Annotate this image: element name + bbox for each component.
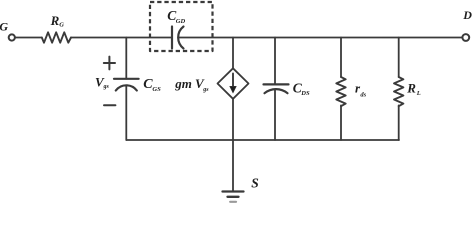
- svg-text:R: R: [50, 13, 60, 28]
- svg-text:G: G: [59, 22, 64, 29]
- svg-text:GD: GD: [176, 18, 186, 25]
- svg-text:DS: DS: [300, 90, 310, 97]
- svg-text:L: L: [416, 90, 421, 97]
- svg-text:gm V: gm V: [174, 76, 205, 91]
- svg-text:gs: gs: [202, 87, 209, 93]
- svg-text:GS: GS: [152, 86, 161, 93]
- svg-text:S: S: [251, 175, 259, 190]
- svg-text:D: D: [462, 8, 472, 22]
- svg-text:G: G: [0, 20, 8, 34]
- svg-text:R: R: [406, 80, 416, 95]
- svg-text:ds: ds: [360, 92, 366, 99]
- svg-text:gs: gs: [103, 84, 110, 90]
